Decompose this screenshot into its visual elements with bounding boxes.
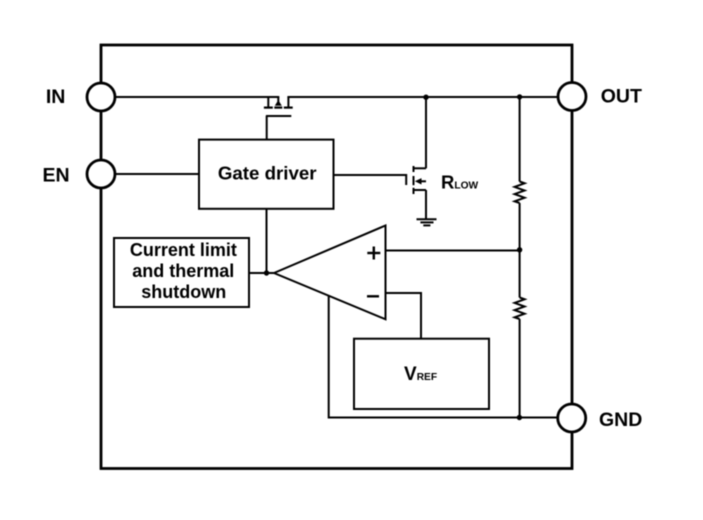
svg-text:EN: EN bbox=[43, 164, 70, 186]
svg-text:Current limit: Current limit bbox=[130, 240, 237, 260]
svg-text:GND: GND bbox=[599, 409, 642, 431]
svg-text:RLOW: RLOW bbox=[441, 171, 479, 192]
svg-text:shutdown: shutdown bbox=[141, 282, 226, 302]
svg-text:and thermal: and thermal bbox=[132, 261, 234, 281]
svg-text:Gate driver: Gate driver bbox=[218, 163, 317, 184]
svg-text:OUT: OUT bbox=[601, 86, 642, 108]
svg-text:IN: IN bbox=[46, 86, 66, 108]
